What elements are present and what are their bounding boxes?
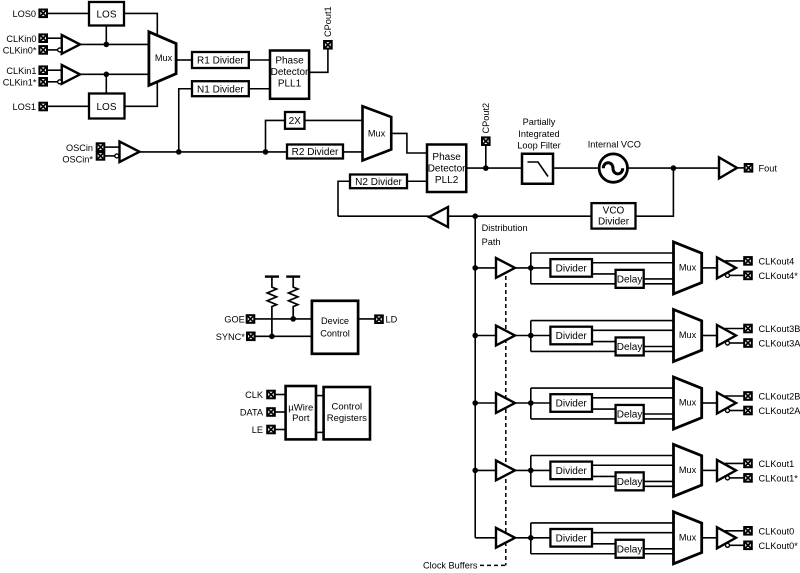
svg-text:CLKout2B: CLKout2B	[759, 392, 800, 402]
wire LOS0 pin to LOS block	[47, 12, 89, 14]
wire DATA to uWire port	[275, 411, 286, 413]
inversion bubble ch0	[726, 543, 730, 547]
svg-text:VCO: VCO	[603, 205, 625, 216]
svg-text:CPout2: CPout2	[481, 103, 491, 134]
svg-text:Divider: Divider	[556, 399, 588, 410]
svg-text:Internal VCO: Internal VCO	[588, 140, 641, 150]
pin CLKout2B	[744, 392, 752, 400]
power rail for pullup resistor 2	[286, 275, 300, 277]
svg-text:Mux: Mux	[679, 330, 697, 340]
wire PLL2 out to loop filter	[466, 167, 522, 169]
pin CLKout1	[744, 460, 752, 468]
wire CLKin1* to buffer	[47, 81, 58, 83]
mux output select ch4	[674, 242, 702, 294]
wire buffer to CLKout2B pin	[725, 395, 744, 397]
svg-text:LE: LE	[252, 425, 263, 435]
clock buffer ch1	[496, 461, 515, 481]
wire buffer to CLKout0 pin	[725, 530, 744, 532]
pin CLKout0	[744, 527, 752, 535]
svg-text:Partially: Partially	[523, 117, 556, 127]
node channel input ch4	[528, 265, 534, 271]
mux output select ch3	[674, 310, 702, 362]
wire loop filter to VCO	[553, 167, 598, 169]
Divider block ch4	[550, 259, 592, 277]
pin CLKin0*	[39, 46, 47, 54]
node VCO output	[671, 165, 677, 171]
pin LOS1	[39, 103, 47, 111]
wire divider to mux ch2	[592, 397, 674, 399]
wire buffer to CLKout1 pin	[725, 462, 744, 464]
svg-text:CLKout0*: CLKout0*	[759, 541, 799, 551]
svg-text:CLKout4: CLKout4	[759, 257, 795, 267]
node CLKin0/LOS0	[104, 42, 110, 48]
mux output select ch1	[674, 444, 702, 496]
wire channel bypass vertical ch0	[530, 523, 532, 554]
svg-text:Clock Buffers: Clock Buffers	[423, 561, 478, 571]
pin GOE	[247, 315, 255, 323]
wire feedback buffer to N2	[338, 215, 429, 217]
svg-text:Integrated: Integrated	[518, 129, 559, 139]
wire CLKin1 to buffer	[47, 69, 62, 71]
clock buffer ch4	[496, 258, 515, 278]
svg-text:µWire: µWire	[288, 402, 313, 413]
pin LOS0	[39, 10, 47, 18]
svg-text:Delay: Delay	[617, 477, 643, 488]
2X doubler block	[285, 112, 305, 129]
node GOE pullup	[290, 316, 296, 322]
pin CLKin1*	[39, 78, 47, 86]
pin OSCin	[97, 143, 105, 151]
wire mux to output buffer ch4	[702, 267, 717, 269]
wire channel bypass vertical ch3	[530, 321, 532, 352]
node OSC to N1	[176, 149, 182, 155]
svg-text:Mux: Mux	[679, 532, 697, 542]
Delay block ch2	[616, 405, 644, 423]
pin CLKout4	[744, 257, 752, 265]
Control Registers block	[324, 387, 370, 439]
clock buffer ch3	[496, 326, 515, 346]
svg-text:Mux: Mux	[679, 263, 697, 273]
svg-text:Control: Control	[331, 401, 362, 412]
svg-text:Mux: Mux	[679, 465, 697, 475]
svg-text:Mux: Mux	[155, 53, 173, 63]
wire trunk to clock buffer ch3	[475, 335, 496, 337]
mux MUX1 CLKin select	[149, 32, 176, 86]
svg-text:Path: Path	[482, 237, 501, 247]
pin DATA	[267, 408, 275, 416]
wire CLKin1 buffer to mux	[80, 73, 149, 75]
clock buffer ch0	[496, 528, 515, 548]
inversion bubble OSCin*	[115, 154, 119, 158]
Device Control block	[312, 301, 358, 354]
wire mux to output buffer ch0	[702, 537, 717, 539]
node CLKin1/LOS1	[104, 72, 110, 78]
wire uWire to control registers (top)	[316, 395, 324, 397]
wire trunk to clock buffer ch4	[475, 267, 496, 269]
wire delay to mux ch0	[644, 548, 674, 550]
wire LOS1 node	[105, 74, 107, 93]
wire divider to mux ch0	[592, 532, 674, 534]
wire buffer to CLKout3A pin	[730, 342, 745, 344]
wire CLKin0 to buffer	[47, 37, 62, 39]
wire channel bypass vertical ch2	[530, 388, 532, 419]
node channel input ch2	[528, 400, 534, 406]
svg-text:Phase: Phase	[275, 56, 304, 67]
VCO Divider block	[592, 203, 636, 229]
pin SYNC*	[247, 333, 255, 341]
power rail for pullup resistor 1	[265, 275, 279, 277]
svg-text:CLKin0*: CLKin0*	[3, 46, 37, 56]
svg-text:Detector: Detector	[428, 164, 466, 175]
svg-text:SYNC*: SYNC*	[216, 332, 246, 342]
inversion bubble ch3	[726, 341, 730, 345]
svg-text:Divider: Divider	[556, 263, 588, 274]
LOS detector block (top)	[89, 2, 124, 26]
input buffer OSCin	[120, 142, 140, 163]
node CPout2	[483, 165, 489, 171]
Divider block ch0	[550, 529, 592, 547]
svg-text:Control: Control	[320, 329, 350, 339]
wire to CPout2 pin	[485, 145, 487, 168]
loop filter block	[522, 154, 553, 184]
wire delay to mux ch2	[644, 413, 674, 415]
wire mux2 to phase detector PLL2	[391, 133, 427, 153]
pullup resistor 2	[289, 277, 298, 320]
wire LOS top to mux select	[124, 13, 157, 36]
wire divider to mux ch1	[592, 464, 674, 466]
Delay block ch0	[616, 540, 644, 558]
wire buffer to CLKout4* pin	[730, 274, 745, 276]
svg-text:Loop Filter: Loop Filter	[517, 140, 560, 150]
pullup resistor 1	[267, 277, 276, 337]
node OSC to 2X	[263, 149, 269, 155]
svg-text:Delay: Delay	[617, 410, 643, 421]
svg-text:2X: 2X	[289, 116, 302, 127]
Divider block ch1	[550, 462, 592, 480]
output buffer ch1	[717, 460, 736, 481]
wire LOS top to CLKin0 node	[105, 26, 107, 45]
wire trunk to clock buffer ch1	[475, 469, 496, 471]
wire bypass bottom to mux ch1	[531, 485, 674, 487]
wire buffer to CLKout1* pin	[730, 477, 745, 479]
pin CLK	[267, 391, 275, 399]
svg-text:CLKout3B: CLKout3B	[759, 324, 800, 334]
wire N1 divider from OSCin node	[179, 89, 192, 152]
wire OSC buffer to R2 divider	[140, 151, 288, 153]
Divider block ch3	[550, 327, 592, 345]
wire buffer to CLKout3B pin	[725, 328, 744, 330]
clock buffers sync dashed line	[505, 262, 507, 565]
feedback buffer	[429, 207, 448, 227]
wire divider to delay ch3	[592, 341, 616, 343]
inversion bubble ch2	[726, 409, 730, 413]
wire bypass bottom to mux ch4	[531, 283, 674, 285]
pin CPout2	[482, 137, 490, 145]
svg-text:CPout1: CPout1	[323, 6, 333, 37]
node distribution trunk ch4	[472, 265, 478, 271]
svg-text:Phase: Phase	[432, 152, 461, 163]
wire node to 2X	[266, 120, 286, 151]
wire buffer to divider node ch4	[515, 267, 550, 269]
wire mux to output buffer ch1	[702, 469, 717, 471]
node distribution trunk ch3	[472, 333, 478, 339]
svg-text:Mux: Mux	[368, 129, 386, 139]
svg-text:GOE: GOE	[224, 315, 244, 325]
wire R1 to phase detector PLL1	[249, 59, 270, 61]
pin LD	[375, 315, 383, 323]
inversion bubble ch1	[726, 476, 730, 480]
wire distribution trunk	[474, 216, 476, 538]
svg-text:LOS: LOS	[96, 9, 116, 20]
wire delay to mux ch3	[644, 346, 674, 348]
Delay block ch4	[616, 270, 644, 288]
svg-text:PLL2: PLL2	[435, 175, 459, 186]
wire LE to uWire port	[275, 429, 286, 431]
wire N2 to phase detector PLL2	[407, 180, 427, 182]
wire buffer to divider node ch2	[515, 402, 550, 404]
svg-text:Detector: Detector	[271, 67, 309, 78]
wire bypass bottom to mux ch2	[531, 418, 674, 420]
wire divider to delay ch1	[592, 475, 616, 477]
pin Fout	[745, 164, 753, 172]
wire buffer to CLKout4 pin	[725, 260, 744, 262]
svg-text:CLKout1: CLKout1	[759, 459, 795, 469]
wire uWire to control registers (bottom)	[316, 431, 324, 433]
wire bypass top to mux ch2	[531, 387, 674, 389]
svg-text:Divider: Divider	[598, 217, 630, 228]
wire VCO divider to feedback buffer	[448, 215, 592, 217]
svg-text:N1 Divider: N1 Divider	[197, 84, 244, 95]
svg-text:Distribution: Distribution	[482, 223, 528, 233]
svg-text:R2 Divider: R2 Divider	[292, 147, 339, 158]
wire divider to delay ch4	[592, 273, 616, 275]
node channel input ch0	[528, 535, 534, 541]
pin CLKout1*	[744, 474, 752, 482]
wire LOS bottom to mux select	[125, 81, 158, 106]
svg-text:OSCin*: OSCin*	[62, 155, 93, 165]
wire OSCin* to buffer	[104, 155, 115, 157]
wire buffer to divider node ch3	[515, 335, 550, 337]
wire bypass top to mux ch4	[531, 252, 674, 254]
R2 Divider block	[287, 145, 343, 159]
wire bypass bottom to mux ch0	[531, 553, 674, 555]
svg-text:CLKin1*: CLKin1*	[3, 78, 37, 88]
phase detector PLL1 block	[270, 51, 309, 99]
wire divider to mux ch4	[592, 262, 674, 264]
svg-text:CLKout1*: CLKout1*	[759, 474, 799, 484]
mux output select ch2	[674, 377, 702, 429]
mux MUX2 PLL2 reference select	[363, 106, 392, 160]
wire trunk to clock buffer ch0	[475, 537, 496, 539]
output buffer ch4	[717, 257, 736, 278]
wire PLL1 to CPout1	[309, 48, 328, 72]
node distribution trunk ch2	[472, 400, 478, 406]
wire CLKin0 buffer to mux	[80, 43, 149, 45]
svg-text:CLKin0: CLKin0	[6, 34, 36, 44]
output buffer Fout	[719, 157, 737, 178]
svg-text:Fout: Fout	[759, 163, 778, 173]
svg-text:N2 Divider: N2 Divider	[355, 177, 402, 188]
svg-text:Device: Device	[321, 316, 349, 326]
output buffer ch2	[717, 393, 736, 414]
svg-text:PLL1: PLL1	[278, 79, 302, 90]
wire delay to mux ch1	[644, 480, 674, 482]
node channel input ch1	[528, 468, 534, 474]
svg-text:LOS: LOS	[96, 102, 116, 113]
LOS detector block (bottom)	[89, 94, 125, 119]
wire GOE to device control	[254, 318, 312, 320]
N1 Divider block	[192, 81, 249, 96]
svg-text:LOS1: LOS1	[13, 102, 37, 112]
svg-text:Divider: Divider	[556, 331, 588, 342]
svg-text:OSCin: OSCin	[66, 143, 93, 153]
mux output select ch0	[674, 512, 702, 564]
svg-text:CLKin1: CLKin1	[6, 66, 36, 76]
svg-text:DATA: DATA	[240, 408, 264, 418]
wire buffer to divider node ch1	[515, 469, 550, 471]
input buffer CLKin0	[62, 35, 80, 54]
wire channel bypass vertical ch4	[530, 253, 532, 284]
wire buffer to Fout pin	[737, 167, 745, 169]
inversion bubble CLKin0*	[58, 48, 62, 52]
oscillator Internal VCO	[599, 154, 627, 182]
svg-text:CLK: CLK	[245, 390, 264, 400]
pin CLKin1	[39, 66, 47, 74]
inversion bubble CLKin1*	[58, 80, 62, 84]
node distribution path	[472, 213, 478, 219]
svg-text:LD: LD	[386, 315, 398, 325]
node distribution trunk ch1	[472, 468, 478, 474]
wire VCO node to VCO divider	[636, 168, 674, 216]
clock buffer ch2	[496, 393, 515, 413]
output buffer ch0	[717, 527, 736, 548]
wire mux to output buffer ch3	[702, 335, 717, 337]
wire CLK to uWire port	[275, 394, 286, 396]
svg-text:LOS0: LOS0	[13, 9, 37, 19]
pin CPout1	[324, 41, 332, 49]
svg-text:CLKout4*: CLKout4*	[759, 271, 799, 281]
svg-text:Delay: Delay	[617, 544, 643, 555]
svg-text:Delay: Delay	[617, 342, 643, 353]
wire OSCin to buffer	[104, 146, 119, 148]
wire device control to LD pin	[357, 318, 375, 320]
pin CLKin0	[39, 34, 47, 42]
wire bypass top to mux ch3	[531, 320, 674, 322]
input buffer CLKin1	[62, 65, 80, 84]
wire channel bypass vertical ch1	[530, 456, 532, 487]
wire N1 to phase detector PLL1	[249, 88, 270, 90]
phase detector PLL2 block	[427, 145, 466, 193]
wire trunk to clock buffer ch2	[475, 402, 496, 404]
wire delay to mux ch4	[644, 278, 674, 280]
svg-text:Divider: Divider	[556, 533, 588, 544]
svg-text:Mux: Mux	[679, 398, 697, 408]
pin CLKout0*	[744, 542, 752, 550]
wire CLKin0* to buffer	[47, 49, 58, 51]
svg-text:Port: Port	[292, 413, 310, 424]
pin CLKout3B	[744, 325, 752, 333]
pin OSCin*	[97, 152, 105, 160]
pin CLKout4*	[744, 272, 752, 280]
node SYNC* pullup	[269, 334, 275, 340]
wire mux1 to R1 divider	[176, 59, 192, 61]
wire LOS1 pin to LOS block	[47, 105, 89, 107]
output buffer ch3	[717, 325, 736, 346]
svg-text:CLKout3A: CLKout3A	[759, 339, 800, 349]
R1 Divider block	[192, 52, 249, 68]
svg-text:CLKout2A: CLKout2A	[759, 406, 800, 416]
wire divider to delay ch2	[592, 408, 616, 410]
wire VCO to Fout buffer	[628, 167, 719, 169]
pin CLKout3A	[744, 339, 752, 347]
svg-text:R1 Divider: R1 Divider	[197, 56, 244, 67]
inversion bubble ch4	[726, 273, 730, 277]
wire buffer to CLKout0* pin	[730, 544, 745, 546]
node channel input ch3	[528, 333, 534, 339]
wire bypass top to mux ch1	[531, 455, 674, 457]
uWire Port block	[286, 386, 316, 439]
svg-text:Registers: Registers	[327, 413, 367, 424]
wire R2 to mux2	[343, 151, 363, 153]
Divider block ch2	[550, 394, 592, 412]
N2 Divider block	[350, 175, 407, 189]
svg-text:Delay: Delay	[617, 274, 643, 285]
wire bypass bottom to mux ch3	[531, 350, 674, 352]
wire buffer to CLKout2A pin	[730, 410, 745, 412]
Delay block ch1	[616, 472, 644, 490]
svg-text:CLKout0: CLKout0	[759, 526, 795, 536]
wire divider to delay ch0	[592, 543, 616, 545]
svg-text:Divider: Divider	[556, 466, 588, 477]
wire mux to output buffer ch2	[702, 402, 717, 404]
wire N2 divider from feedback	[338, 181, 350, 216]
wire divider to mux ch3	[592, 329, 674, 331]
wire SYNC* to device control	[255, 335, 312, 337]
wire buffer to divider node ch0	[515, 537, 550, 539]
pin CLKout2A	[744, 407, 752, 415]
dashed lead Clock Buffers	[480, 564, 506, 566]
wire bypass top to mux ch0	[531, 522, 674, 524]
pin LE	[267, 426, 275, 434]
wire 2X to mux2	[305, 119, 363, 121]
Delay block ch3	[616, 337, 644, 355]
